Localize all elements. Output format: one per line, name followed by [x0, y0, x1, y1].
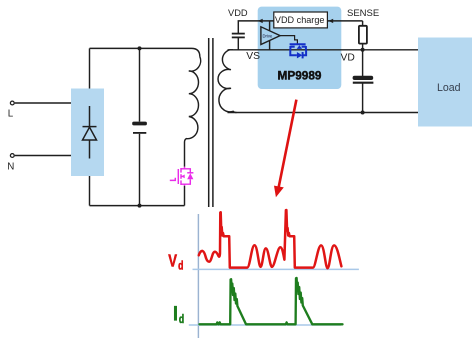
svg-text:MP9989: MP9989	[278, 69, 322, 83]
wire bottom rail	[90, 205, 185, 207]
svg-text:SENSE: SENSE	[347, 8, 379, 19]
capacitor C2 VDD	[232, 34, 245, 50]
wire top rail to transformer primary	[90, 48, 200, 56]
node top rail / C1	[138, 46, 142, 50]
wire VS-VD rail	[228, 49, 419, 51]
waveform Id horizontal axis	[189, 324, 341, 326]
arrow into VDD charge	[328, 19, 333, 23]
waveform Id trace	[200, 278, 343, 324]
op-amp supply wire	[269, 21, 271, 50]
wire Q1 source to bottom rail	[184, 186, 186, 206]
wire SENSE vertical	[362, 21, 364, 50]
wire secondary bottom rail	[228, 112, 419, 114]
svg-text:N: N	[7, 162, 14, 173]
transformer T1 core	[208, 38, 210, 207]
svg-text:Load: Load	[437, 82, 461, 94]
wire VDD node	[238, 21, 273, 33]
bridge rectifier box BR1	[71, 89, 104, 177]
node VD / R1	[361, 48, 365, 52]
wire L input	[15, 102, 71, 104]
terminal L	[10, 101, 14, 105]
waveform Vd trace	[199, 210, 342, 268]
wire driver output to gate	[280, 36, 297, 44]
transformer T1 secondary winding	[218, 50, 236, 113]
wire bridge bottom to bottom rail	[89, 176, 91, 206]
svg-text:Drive: Drive	[263, 34, 273, 39]
svg-text:VDD: VDD	[228, 8, 248, 18]
transformer T1 primary winding	[185, 57, 201, 167]
transistor Q1 primary MOSFET (magenta)	[170, 167, 194, 186]
transistor Q2 sync FET (blue)	[290, 44, 307, 58]
capacitor C1 bulk	[132, 48, 147, 205]
VDD charge block	[274, 12, 328, 28]
arrow VDD charge output	[258, 19, 263, 23]
capacitor C3 output	[353, 50, 374, 113]
svg-text:VD: VD	[341, 53, 355, 64]
node bottom rail / C3	[361, 111, 365, 115]
resistor R1 sense	[359, 26, 367, 44]
wire bridge top to top rail	[89, 48, 91, 88]
IC U1 MP9989 body	[258, 7, 342, 89]
svg-text:VS: VS	[246, 51, 260, 62]
wire N input	[15, 155, 71, 157]
node bottom rail / C1	[138, 204, 142, 208]
red annotation arrow	[278, 100, 296, 190]
terminal N	[10, 154, 14, 158]
waveform Vd horizontal axis	[193, 268, 359, 270]
diode D1 inside bridge	[83, 106, 97, 159]
svg-text:VDD charge: VDD charge	[275, 15, 325, 25]
waveform vertical axis	[197, 214, 199, 338]
wire SENSE to VDD charge	[327, 20, 362, 22]
load box	[418, 38, 472, 127]
svg-text:L: L	[8, 109, 14, 120]
op-amp U2 driver	[261, 27, 280, 45]
